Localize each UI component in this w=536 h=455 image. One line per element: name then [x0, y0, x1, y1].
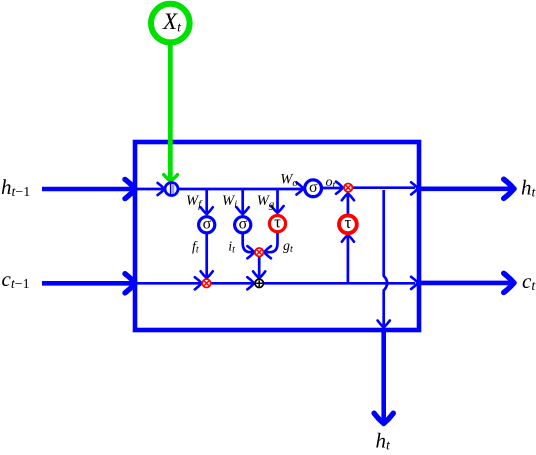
wire tau-g output curve to mult-ig — [264, 232, 277, 258]
svg-text:ct−1: ct−1 — [2, 267, 30, 292]
svg-text:τ: τ — [274, 212, 281, 231]
wire tau-c up into mult-o — [342, 193, 354, 214]
mult-ig (i*g product) — [255, 248, 263, 256]
svg-text:Wf: Wf — [186, 193, 203, 211]
svg-text:σ: σ — [203, 215, 212, 232]
wire branch down to sigma-i — [237, 190, 249, 214]
svg-text:Wo: Wo — [280, 172, 298, 190]
svg-text:ht: ht — [521, 176, 536, 201]
wire sigma-o to mult-o — [322, 182, 343, 194]
svg-text:Wg: Wg — [257, 193, 275, 211]
gate sigma-i — [235, 215, 251, 233]
gate tau-c — [339, 213, 357, 233]
gate tau-g — [269, 212, 285, 231]
wire h branch down with hop over c line — [378, 190, 390, 327]
wire c_t output right (thick) — [419, 273, 514, 292]
svg-text:it: it — [228, 240, 235, 256]
wire mult-o to box right edge — [353, 182, 419, 194]
svg-text:ct: ct — [522, 269, 536, 294]
plus node (cell state sum) — [255, 279, 263, 287]
svg-text:ht: ht — [376, 428, 392, 450]
svg-text:ft: ft — [192, 240, 199, 256]
wire mult-f to plus — [211, 277, 254, 289]
mult-o (output product on h path) — [344, 184, 352, 192]
wire branch down to sigma-f — [201, 190, 213, 214]
wire c_(t-1) input (thick) — [42, 274, 135, 293]
svg-text:σ: σ — [239, 215, 248, 232]
wire branch down to tau-g — [271, 190, 283, 213]
mult-f (forget product) — [202, 279, 210, 287]
svg-text:Wi: Wi — [222, 193, 237, 211]
wire h_t output bottom (thick) — [374, 331, 393, 424]
LSTM cell box — [135, 142, 419, 330]
wire h_(t-1) input (thick) — [42, 179, 135, 198]
svg-text:gt: gt — [283, 239, 293, 255]
wire X_t down into cell (green) — [164, 42, 178, 181]
wire sigma-i output curve to mult-ig — [243, 233, 255, 258]
wire c line up into tau-c — [342, 235, 354, 283]
svg-text:ht−1: ht−1 — [1, 175, 30, 200]
svg-text:σ: σ — [309, 179, 318, 196]
wire h line from concat to sigma-o — [178, 182, 303, 194]
svg-text:τ: τ — [344, 213, 351, 232]
wire sigma-f output down to mult-f — [201, 233, 213, 278]
wire mult-ig down to plus — [253, 257, 265, 278]
concat node (h_t-1 | x_t) — [165, 183, 178, 196]
gate sigma-f — [199, 215, 215, 233]
gate sigma-o — [305, 179, 322, 197]
wire plus to box right edge — [264, 277, 418, 289]
wire c line into mult-f — [137, 277, 202, 289]
wire h_t output right (thick) — [419, 179, 514, 198]
input node X_t (green circle) — [151, 4, 190, 43]
wire h line into concat node — [137, 183, 165, 195]
